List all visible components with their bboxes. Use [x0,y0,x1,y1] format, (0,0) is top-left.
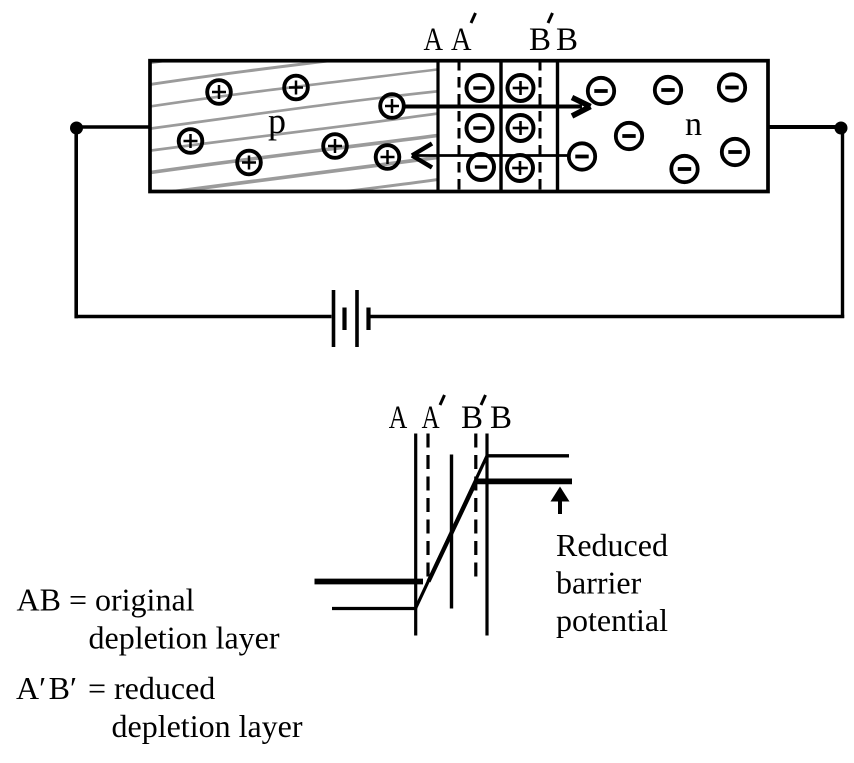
hole H5 [237,151,261,175]
electron E2 [655,77,681,103]
svg-text:depletion layer: depletion layer [112,708,303,744]
battery cell plate short 2 [366,308,370,331]
graph label B' [461,395,486,436]
svg-text:p: p [268,101,286,141]
depletion boundary line B (solid) [556,60,559,190]
node label A' (top) [451,13,476,58]
donor ion row3 [507,155,533,181]
svg-text:n: n [685,106,702,143]
depletion boundary line A' (dashed) [458,60,461,190]
svg-text:B: B [529,22,551,58]
wire right horizontal [768,125,842,129]
junction centre line [499,60,502,190]
node left terminal [70,122,83,135]
svg-text:AB = original: AB = original [17,582,195,618]
node label B' (top) [529,13,553,58]
reduced barrier lower level (thin) [332,607,416,610]
svg-text:B: B [490,400,512,436]
electron E5 [569,143,595,169]
hole H2 [284,76,308,100]
potential slope (thin) [416,456,488,609]
graph label A' [422,395,445,436]
hole flow arrow (right) [403,98,591,117]
electron E7 [671,156,697,182]
wire bottom right [371,315,845,318]
graph line A' (dashed vertical) [426,434,429,585]
hole H7 [376,145,400,169]
reduced barrier arrow [551,487,570,515]
electron E3 [719,74,745,100]
original barrier upper level (thin) [487,454,569,457]
graph line B' (dashed vertical) [474,434,477,585]
electron E1 [588,78,614,104]
svg-text:potential: potential [556,602,668,638]
svg-text:B: B [461,400,483,436]
electron E6 [722,139,748,165]
p-region hatching [140,25,445,241]
graph junction line (solid vertical) [450,455,453,609]
battery cell plate long 1 [332,290,336,347]
hole H1 [207,80,231,104]
potential slope (thick) [429,481,477,581]
hole H6 [323,134,347,158]
electron E4 [616,123,642,149]
svg-text:A: A [424,22,444,58]
wire left horizontal [77,125,151,129]
acceptor ion row1 [467,75,493,101]
node right terminal [835,122,848,135]
donor ion row2 [508,115,534,141]
diode body rectangle [150,61,768,192]
svg-text:A: A [389,400,408,436]
acceptor ion row3 [468,154,494,180]
original barrier lower level (thick) [315,579,424,585]
hole H4 [179,129,203,153]
depletion boundary line A (solid) [436,60,439,190]
depletion boundary line B' (dashed) [539,60,542,190]
svg-text:A: A [422,400,440,436]
svg-text:B: B [556,22,578,58]
hole H3 [380,94,404,118]
svg-text:A: A [451,22,472,58]
svg-text:A′B′ = reduced: A′B′ = reduced [16,670,215,706]
graph line B (solid vertical) [485,434,488,636]
battery cell plate long 2 [355,290,359,347]
svg-text:depletion layer: depletion layer [89,620,280,656]
donor ion row1 [508,75,534,101]
battery cell plate short 1 [342,308,346,331]
reduced barrier upper level (thick) [476,479,572,485]
acceptor ion row2 [467,115,493,141]
graph line A (solid vertical) [414,434,417,636]
wire bottom left [75,315,332,319]
wire right vertical [841,128,844,318]
svg-text:barrier: barrier [556,565,642,601]
wire left vertical [74,128,78,318]
electron flow arrow (left) [412,144,569,168]
svg-text:Reduced: Reduced [556,527,668,563]
